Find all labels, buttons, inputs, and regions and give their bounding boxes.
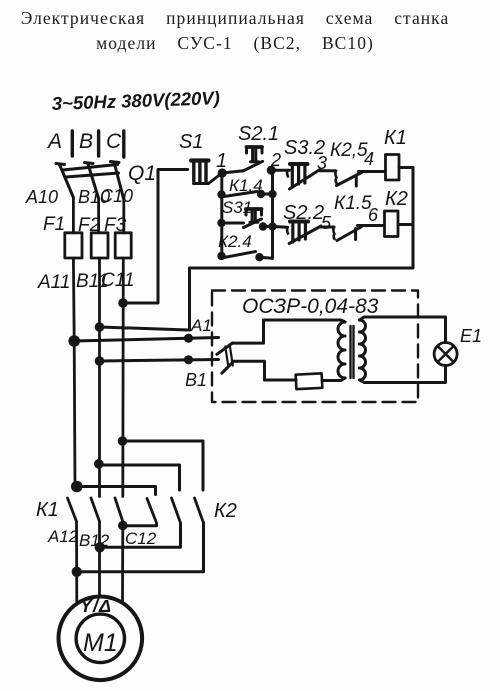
svg-text:В12: В12	[79, 531, 110, 550]
svg-text:К1: К1	[36, 499, 59, 521]
svg-text:А12: А12	[47, 527, 79, 546]
svg-text:С11: С11	[101, 270, 134, 291]
svg-text:S1: S1	[179, 131, 203, 153]
svg-text:S31: S31	[222, 198, 252, 217]
svg-text:3: 3	[317, 153, 327, 173]
svg-text:A: A	[46, 130, 62, 153]
svg-text:Y/Δ: Y/Δ	[80, 596, 112, 616]
svg-text:3~50Hz 380V(220V): 3~50Hz 380V(220V)	[51, 87, 220, 114]
svg-text:F3: F3	[104, 215, 127, 236]
svg-text:Q1: Q1	[128, 162, 156, 185]
svg-text:А1: А1	[190, 316, 212, 335]
svg-text:4: 4	[364, 149, 374, 169]
svg-text:6: 6	[368, 205, 379, 225]
svg-text:C: C	[106, 130, 122, 153]
svg-text:К1.5: К1.5	[334, 193, 372, 214]
svg-text:К1: К1	[384, 127, 407, 149]
svg-text:К2: К2	[214, 500, 237, 522]
svg-text:ОСЗР-0,04-83: ОСЗР-0,04-83	[242, 295, 379, 318]
svg-text:F2: F2	[78, 215, 101, 236]
svg-text:К2: К2	[385, 188, 408, 210]
svg-text:5: 5	[321, 213, 332, 233]
svg-text:С12: С12	[125, 529, 157, 548]
svg-text:С10: С10	[100, 186, 133, 206]
svg-text:B: B	[79, 130, 93, 153]
svg-text:E1: E1	[460, 326, 482, 346]
svg-text:А10: А10	[25, 187, 58, 207]
svg-text:М1: М1	[83, 629, 118, 657]
svg-text:К2,5: К2,5	[330, 140, 368, 161]
svg-text:S2.1: S2.1	[238, 123, 279, 145]
svg-text:S2.2: S2.2	[283, 202, 324, 224]
svg-text:А11: А11	[37, 272, 70, 293]
svg-text:К2.4: К2.4	[218, 232, 252, 251]
svg-text:В1: В1	[185, 370, 207, 390]
svg-text:F1: F1	[43, 214, 65, 235]
